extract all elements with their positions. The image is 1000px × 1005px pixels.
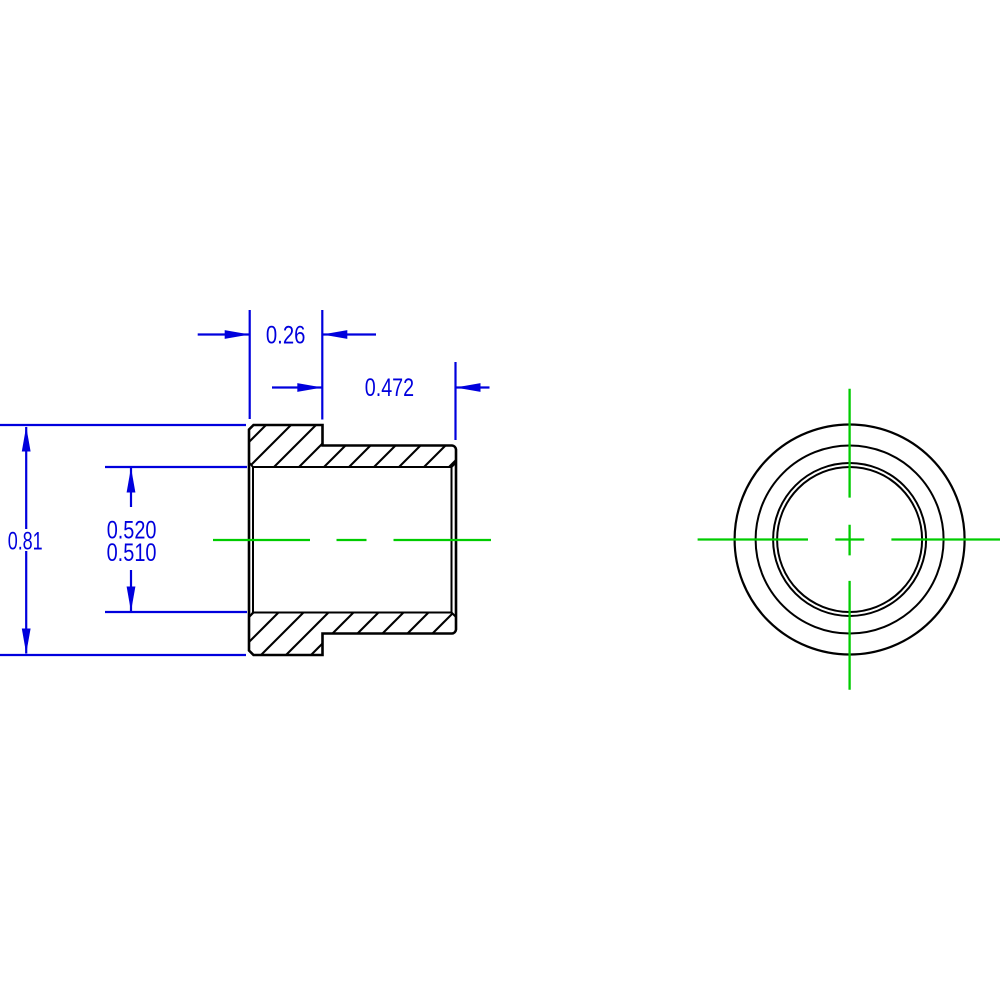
svg-text:0.472: 0.472	[365, 374, 414, 402]
svg-text:0.510: 0.510	[107, 539, 157, 567]
svg-text:0.26: 0.26	[266, 321, 306, 349]
svg-text:0.81: 0.81	[8, 527, 43, 555]
